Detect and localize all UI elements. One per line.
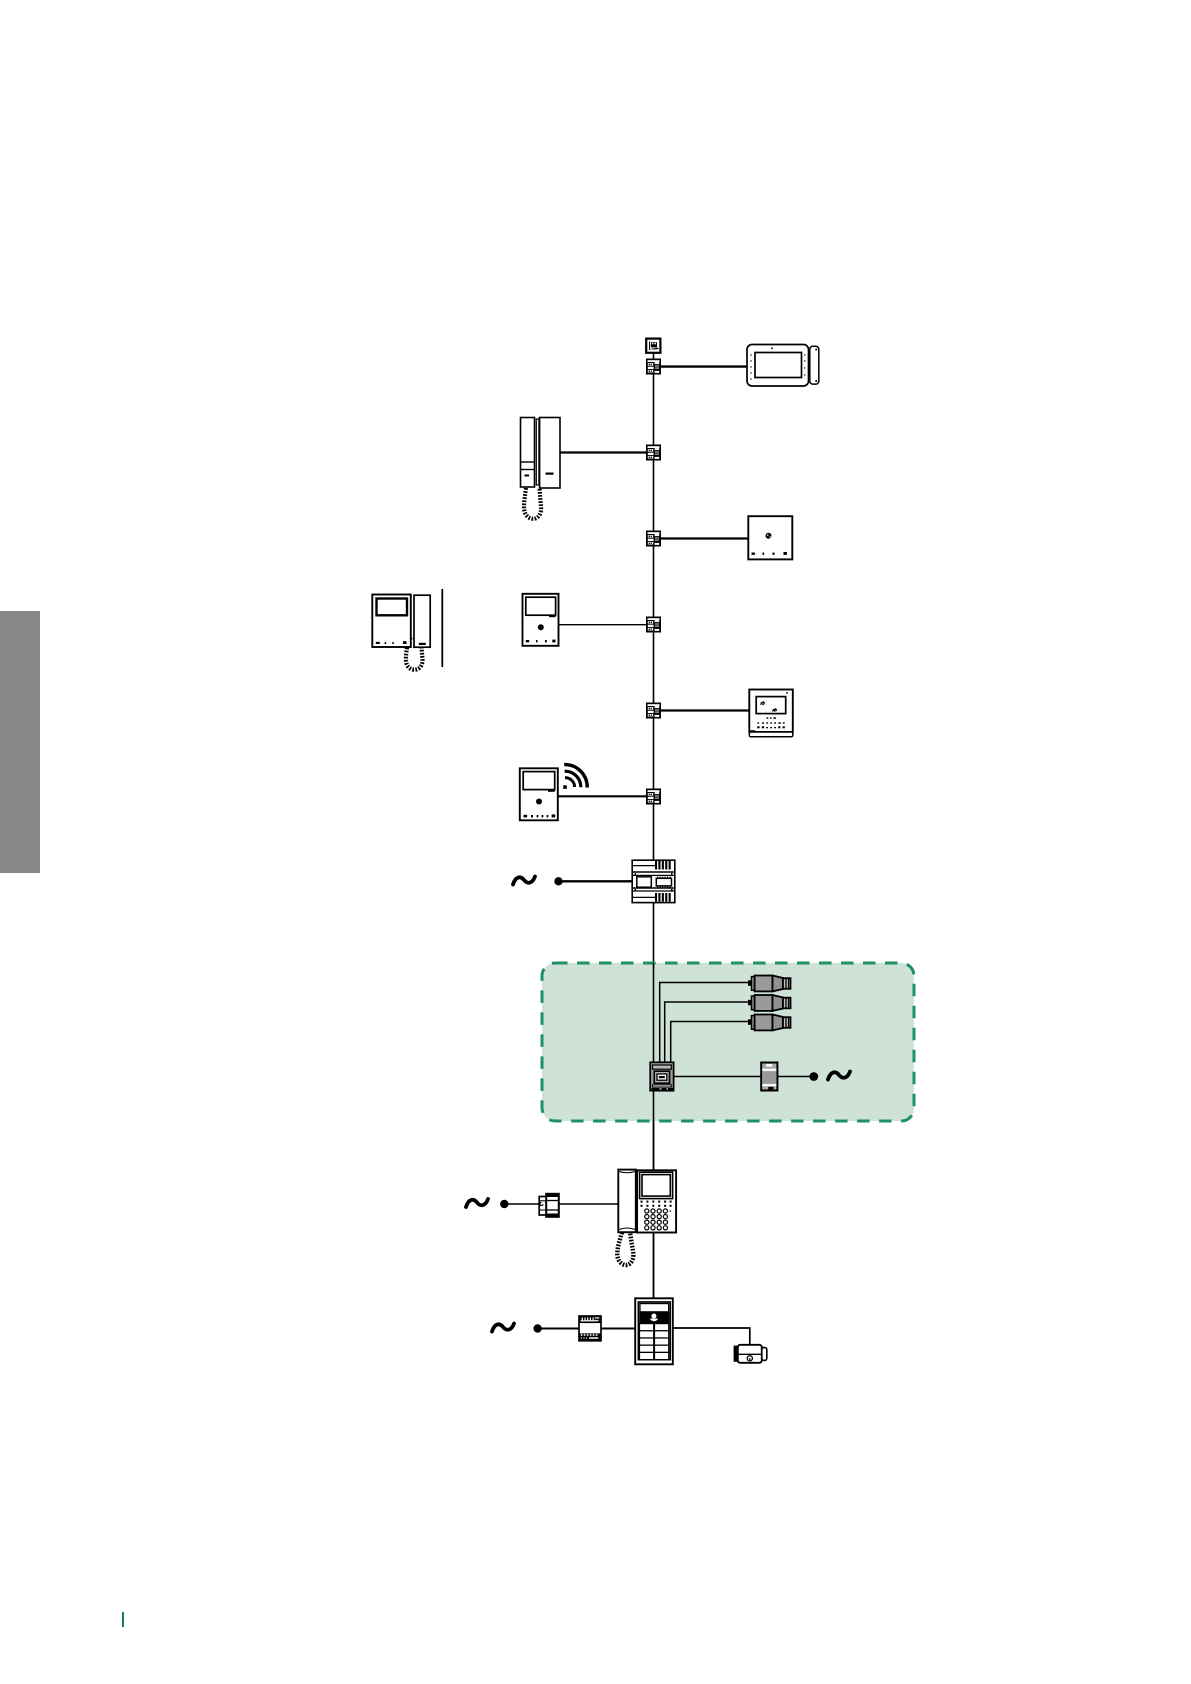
sidebar tab [0, 611, 40, 873]
wire camera 1 drop [660, 983, 748, 1064]
handset monitor (unconnected) [372, 589, 442, 670]
wire mains to relay [507, 1203, 539, 1205]
tablet monitor [747, 345, 819, 387]
camera B1 [748, 976, 791, 992]
distribution module J5 [646, 703, 661, 719]
relay module [539, 1194, 559, 1217]
wire riser to entrance panel [653, 1232, 655, 1299]
wire riser bus [653, 352, 655, 1300]
wire camera 2 drop [665, 1002, 748, 1063]
mains tilde in zone [828, 1072, 850, 1080]
mains tap dot for panel [533, 1324, 541, 1332]
door phone with handset [521, 418, 561, 519]
transformer module [579, 1316, 601, 1341]
mains tap dot in zone [809, 1072, 818, 1081]
terminator module [646, 339, 660, 353]
wire branch to video monitor [661, 709, 749, 711]
wire branch to wifi monitor [558, 795, 646, 797]
camera B2 [748, 995, 791, 1011]
wire mains to PSU [561, 880, 632, 882]
page marker tick [122, 1612, 124, 1627]
audio station [748, 516, 792, 559]
CCTV option zone [542, 963, 914, 1121]
entrance panel [635, 1298, 673, 1364]
wire branch to audio station [661, 537, 748, 539]
wire mains to transformer [540, 1328, 579, 1330]
distribution module J6 [646, 789, 661, 805]
mains tap dot for PSU [554, 877, 562, 885]
wire camera 3 drop [671, 1022, 748, 1064]
wire branch to door phone [560, 451, 646, 453]
wire riser inside zone [653, 963, 655, 1170]
distribution module J4 [646, 617, 661, 633]
mains tap dot for switchboard [500, 1200, 508, 1208]
video switcher module [650, 1062, 673, 1090]
distribution module J2 [646, 445, 661, 461]
wire branch to handsfree monitor [558, 624, 646, 626]
porter switchboard [617, 1170, 676, 1265]
video monitor [749, 690, 793, 737]
wire panel to camera [673, 1328, 750, 1344]
mains tilde for switchboard [466, 1199, 488, 1207]
distribution module J1 [646, 359, 661, 375]
wire switcher to aux PSU [674, 1076, 761, 1078]
aux power supply [761, 1063, 777, 1091]
power supply unit [632, 860, 675, 902]
mains tilde for panel [492, 1324, 514, 1332]
wifi monitor [520, 765, 587, 821]
wire aux PSU to mains [777, 1076, 812, 1078]
wire relay to switchboard [559, 1203, 618, 1205]
distribution module J3 [646, 531, 661, 547]
external camera [734, 1345, 767, 1363]
wire transformer to panel [601, 1328, 635, 1330]
handsfree monitor [523, 594, 559, 646]
camera B3 [748, 1015, 791, 1031]
mains tilde for PSU [513, 877, 535, 885]
wire branch to tablet monitor [661, 365, 747, 367]
